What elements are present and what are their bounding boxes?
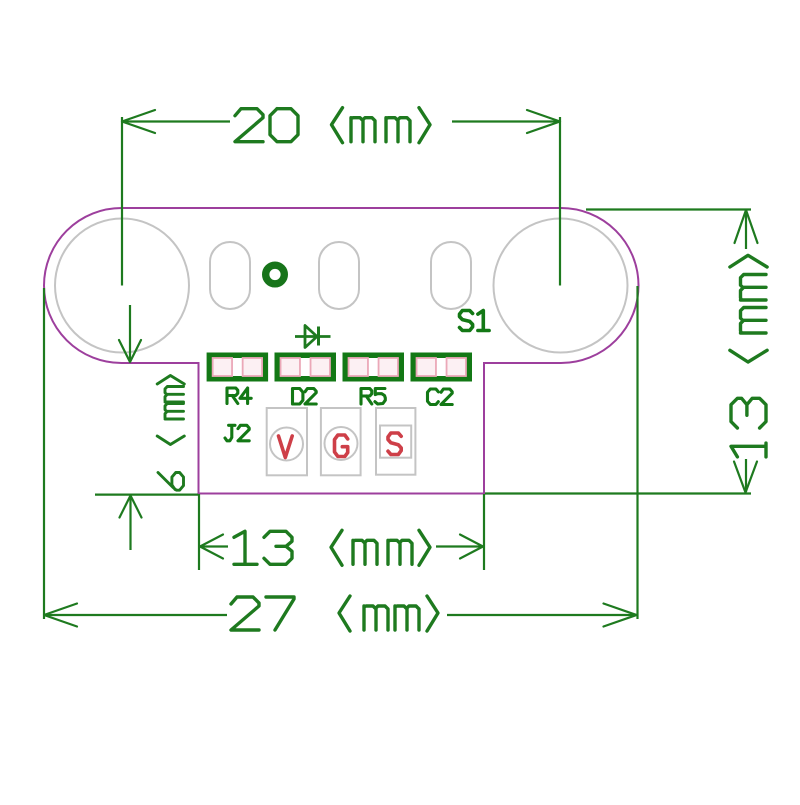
dimension 13 (mm) bottom lines [198,494,200,570]
resistor R4 footprint [209,355,265,379]
dimension 13 (mm) bottom text [234,531,257,564]
via (plated hole) [266,265,285,284]
pin label V [279,436,293,458]
mounting hole right (S1 sensor) [494,219,628,353]
pad G hole [325,427,358,460]
mounting hole left [55,219,189,353]
dimension 13 (mm) right text [730,255,767,457]
connector J2 pad V outline [267,408,307,475]
label S1 [460,311,473,331]
label J2 [225,425,235,441]
board outline (PCB edge) [44,208,639,494]
diode D2 symbol [295,326,331,348]
slot hole 3 [431,242,471,309]
label R5 [361,389,372,405]
dimension 27 (mm) text [231,597,259,630]
pad S hole [380,426,411,458]
connector J2 pad G outline [321,408,361,475]
dimension 20 (mm) lines [121,117,123,286]
dimension 13 (mm) right lines [586,208,751,210]
slot hole 1 [210,242,250,309]
pin label G [335,435,348,457]
slot hole 2 [319,242,359,309]
pad V hole [270,428,303,461]
pin label S [388,433,401,455]
label D2 [293,389,303,405]
resistor R5 footprint [345,355,401,379]
dimension 6 (mm) lines [129,305,131,361]
dimension 27 (mm) lines [43,288,45,619]
capacitor C2 footprint [413,355,469,379]
connector J2 pad S outline [376,408,415,475]
dimension 20 (mm) text [235,109,263,142]
label R4 [227,388,238,404]
diode D2 footprint [277,355,333,379]
label C2 [428,389,439,405]
dimension 6 (mm) text [157,376,184,491]
